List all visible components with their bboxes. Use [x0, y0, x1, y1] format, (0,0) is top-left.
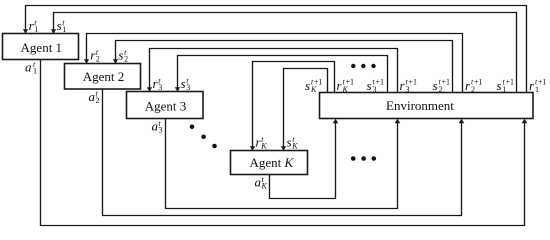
svg-text:+1: +1	[376, 78, 385, 87]
svg-text:2: 2	[124, 55, 128, 64]
svg-text:Agent 2: Agent 2	[83, 69, 125, 84]
svg-text:s: s	[367, 78, 372, 93]
svg-text:Environment: Environment	[386, 98, 454, 113]
svg-text:s: s	[181, 76, 186, 91]
svg-text:2: 2	[96, 55, 100, 64]
svg-text:Agent 1: Agent 1	[21, 40, 63, 55]
svg-text:1: 1	[535, 85, 539, 94]
svg-text:1: 1	[33, 67, 37, 76]
svg-text:K: K	[261, 182, 268, 191]
svg-text:s: s	[118, 48, 123, 63]
svg-text:a: a	[89, 89, 96, 104]
svg-text:+1: +1	[474, 78, 483, 87]
svg-text:3: 3	[186, 83, 190, 92]
svg-text:Agent K: Agent K	[249, 155, 294, 170]
svg-text:K: K	[260, 142, 267, 151]
svg-text:s: s	[305, 78, 310, 93]
svg-text:s: s	[433, 78, 438, 93]
svg-text:a: a	[25, 60, 32, 75]
svg-text:3: 3	[158, 83, 162, 92]
svg-text:2: 2	[96, 96, 100, 105]
svg-text:s: s	[287, 135, 292, 150]
svg-text:s: s	[57, 18, 62, 33]
svg-text:K: K	[310, 85, 317, 94]
svg-text:a: a	[152, 119, 159, 134]
svg-text:3: 3	[159, 126, 163, 135]
svg-text:2: 2	[439, 85, 443, 94]
svg-text:K: K	[291, 142, 298, 151]
svg-text:+1: +1	[506, 78, 515, 87]
svg-text:+1: +1	[442, 78, 451, 87]
svg-text:s: s	[497, 78, 502, 93]
svg-text:Agent 3: Agent 3	[145, 99, 187, 114]
svg-text:1: 1	[62, 25, 66, 34]
svg-text:a: a	[255, 175, 262, 190]
svg-text:K: K	[342, 85, 349, 94]
svg-text:2: 2	[471, 85, 475, 94]
svg-text:+1: +1	[409, 78, 418, 87]
svg-text:+1: +1	[538, 78, 547, 87]
svg-text:1: 1	[503, 85, 507, 94]
svg-text:3: 3	[406, 85, 410, 94]
svg-text:1: 1	[34, 25, 38, 34]
svg-text:3: 3	[373, 85, 377, 94]
